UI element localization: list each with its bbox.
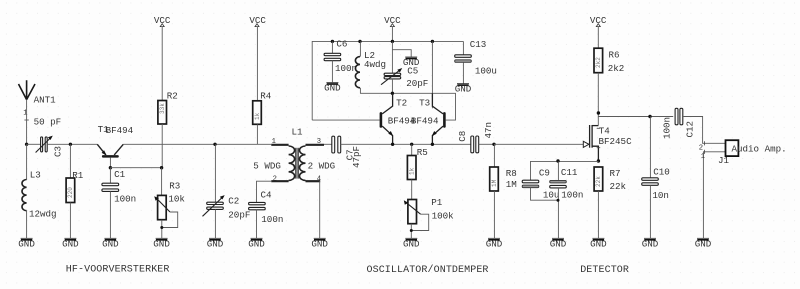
capacitor C7 47pF xyxy=(332,136,362,168)
wire VCC to rail xyxy=(391,27,393,42)
svg-text:10u: 10u xyxy=(543,190,560,201)
wire C12 to J1 pin2 xyxy=(683,117,725,144)
power VCC (R6) xyxy=(590,15,607,26)
svg-text:C11: C11 xyxy=(561,167,578,178)
wire node to T4 gate xyxy=(494,143,583,145)
svg-text:50 pF: 50 pF xyxy=(34,116,62,127)
capacitor C2 (trimmer 20pF) xyxy=(203,144,251,238)
svg-text:GND: GND xyxy=(248,238,265,249)
svg-text:C10: C10 xyxy=(653,167,670,178)
svg-text:C3: C3 xyxy=(53,146,64,157)
svg-text:GND: GND xyxy=(642,238,659,249)
wire C3 to T1 emitter xyxy=(47,143,97,145)
transistor T4 BF245C (JFET) xyxy=(583,125,632,161)
capacitor C1 xyxy=(102,168,136,239)
node T4 source xyxy=(597,159,600,162)
transistor T2 BF494 xyxy=(380,93,416,144)
ground (R3) xyxy=(153,238,170,249)
wire T2 base xyxy=(312,119,379,121)
ground (C2) xyxy=(207,238,224,249)
svg-text:C1: C1 xyxy=(114,169,126,180)
node R1 junction xyxy=(69,143,72,146)
svg-text:100n: 100n xyxy=(114,193,136,204)
svg-text:12wdg: 12wdg xyxy=(29,208,57,219)
wire VCC to R2 xyxy=(161,27,163,101)
svg-text:100n: 100n xyxy=(661,117,672,139)
svg-text:HF-VOORVERSTERKER: HF-VOORVERSTERKER xyxy=(66,264,170,275)
svg-text:100n: 100n xyxy=(335,63,357,74)
ground (C13) xyxy=(455,84,472,95)
svg-text:R5: R5 xyxy=(417,147,428,158)
inductor L3 xyxy=(22,144,57,238)
node R8/main wire xyxy=(492,143,495,146)
node T1 base junction xyxy=(109,166,112,169)
capacitor C11 100n xyxy=(550,161,584,238)
node R5/main wire xyxy=(410,143,413,146)
wire L1 pin4 to ground xyxy=(319,181,321,238)
svg-text:22k: 22k xyxy=(610,181,627,192)
capacitor C6 xyxy=(324,39,357,83)
pin 1 xyxy=(271,144,288,146)
ground (R8) xyxy=(486,238,503,249)
svg-text:C13: C13 xyxy=(470,39,487,50)
potentiometer R3 10k xyxy=(154,168,185,239)
wire R4 to main wire xyxy=(256,124,258,144)
svg-text:J1: J1 xyxy=(718,155,730,166)
svg-text:R1: R1 xyxy=(72,170,84,181)
svg-text:2: 2 xyxy=(699,144,703,152)
svg-text:10n: 10n xyxy=(652,190,669,201)
inductor L2 4wdg xyxy=(355,41,386,93)
svg-text:10k: 10k xyxy=(168,193,185,204)
svg-text:GND: GND xyxy=(550,238,567,249)
capacitor C10 10n xyxy=(642,117,670,239)
wire L1 pin3 to C7 xyxy=(324,143,332,145)
antenna ANT1 xyxy=(19,80,57,105)
oscillator bottom rail (tank node) xyxy=(360,93,456,120)
svg-text:GND: GND xyxy=(311,238,328,249)
svg-text:R4: R4 xyxy=(260,90,272,101)
ground (J1) xyxy=(695,238,712,249)
secondary winding 2 WDG xyxy=(300,146,306,180)
svg-text:100n: 100n xyxy=(561,190,583,201)
capacitor C12 100n xyxy=(661,108,695,139)
svg-text:1k: 1k xyxy=(254,112,261,120)
node C5/T2 collector on tank rail xyxy=(391,92,394,95)
svg-text:C12: C12 xyxy=(685,121,696,138)
svg-text:GND: GND xyxy=(102,238,119,249)
svg-text:C6: C6 xyxy=(336,39,347,50)
core xyxy=(295,148,297,179)
svg-text:BF494: BF494 xyxy=(106,125,134,136)
node T3 emitter/main wire xyxy=(431,143,434,146)
node C6/rail xyxy=(331,40,334,43)
svg-text:GND: GND xyxy=(153,238,170,249)
svg-text:22k: 22k xyxy=(595,176,602,187)
transistor T1 BF494 xyxy=(97,124,133,168)
svg-text:100u: 100u xyxy=(475,65,497,76)
svg-text:1k: 1k xyxy=(409,167,416,175)
wire T1 collector to transformer xyxy=(123,143,271,145)
capacitor C5 (trimmer 20pF) xyxy=(381,66,428,94)
svg-text:R7: R7 xyxy=(610,168,621,179)
resistor R6 xyxy=(594,48,624,74)
power VCC (oscillator) xyxy=(384,15,401,26)
wire C5 trimmer tap to ground xyxy=(392,50,411,57)
transistor T3 BF494 xyxy=(411,93,446,144)
oscillator top rail xyxy=(312,41,463,120)
capacitor C8 47n xyxy=(457,122,494,153)
potentiometer P1 100k xyxy=(404,197,454,238)
svg-text:1: 1 xyxy=(272,138,276,146)
power VCC (R4) xyxy=(249,15,266,26)
svg-text:C4: C4 xyxy=(261,189,273,200)
wire VCC to R6 xyxy=(597,27,599,49)
svg-text:R6: R6 xyxy=(609,49,620,60)
svg-text:GND: GND xyxy=(324,83,341,94)
svg-text:GND: GND xyxy=(590,238,607,249)
svg-text:OSCILLATOR/ONTDEMPER: OSCILLATOR/ONTDEMPER xyxy=(367,264,489,276)
pin 2 xyxy=(271,180,288,182)
wire L1 pin2 to C4 xyxy=(257,181,272,202)
svg-text:R3: R3 xyxy=(169,180,180,191)
pin 1 of ANT1 xyxy=(23,110,29,120)
node antenna/L3 junction xyxy=(25,143,28,146)
resistor R1 xyxy=(66,144,84,238)
ground (C11) xyxy=(550,238,567,249)
capacitor C4 xyxy=(249,189,284,238)
svg-text:BF245C: BF245C xyxy=(599,136,633,147)
svg-text:5 WDG: 5 WDG xyxy=(253,161,281,172)
wire R2 to base node (crosses main wire) xyxy=(161,124,163,168)
connector J1 Audio Amp xyxy=(718,140,787,166)
wire R6 to T4 drain xyxy=(597,73,599,126)
resistor R2 xyxy=(158,90,178,124)
node R2/R3/T1 base xyxy=(160,166,163,169)
svg-text:GND: GND xyxy=(403,238,420,249)
wire source bypass xyxy=(531,161,599,180)
svg-text:GND: GND xyxy=(18,238,35,249)
pin 4 xyxy=(306,180,321,182)
wire J1 pin1 to ground xyxy=(703,152,725,238)
node C2 junction xyxy=(213,143,216,146)
svg-text:1M: 1M xyxy=(506,179,517,190)
svg-text:20pF: 20pF xyxy=(406,78,428,89)
ground (C10) xyxy=(642,238,659,249)
svg-text:4wdg: 4wdg xyxy=(364,59,386,70)
svg-text:220: 220 xyxy=(67,187,74,198)
svg-text:L1: L1 xyxy=(292,127,304,138)
resistor R5 xyxy=(407,144,427,199)
svg-text:1: 1 xyxy=(701,153,705,161)
wire node to C3 xyxy=(27,143,41,145)
svg-text:33k: 33k xyxy=(159,103,166,114)
ground (L1 pin4) xyxy=(311,238,328,249)
svg-text:GND: GND xyxy=(695,238,712,249)
svg-text:C8: C8 xyxy=(457,131,468,142)
svg-text:20pF: 20pF xyxy=(228,210,250,221)
node VCC/C5/rail xyxy=(391,40,394,43)
ground (P1) xyxy=(403,238,420,249)
ground (R1) xyxy=(62,238,79,249)
ground (C6) xyxy=(324,83,341,94)
svg-text:C5: C5 xyxy=(407,66,418,77)
wire antenna to node xyxy=(26,100,28,145)
svg-text:1M: 1M xyxy=(491,179,498,187)
svg-text:3: 3 xyxy=(317,138,321,146)
transformer L1 xyxy=(253,127,335,184)
wire C8 to R8 node xyxy=(479,143,494,145)
resistor R4 xyxy=(253,90,272,124)
svg-text:T3: T3 xyxy=(419,98,430,109)
node C9/C11 ground wire xyxy=(557,199,560,202)
node T2 emitter/main wire xyxy=(391,143,394,146)
capacitor C3 (trimmer 50 pF) xyxy=(34,116,64,157)
node C11 junction xyxy=(556,159,559,162)
node T3 collector/rail xyxy=(431,40,434,43)
node drain/output branch xyxy=(597,111,600,114)
wire VCC to R4 xyxy=(256,27,258,101)
svg-text:BF494: BF494 xyxy=(411,116,439,127)
wire output branch to C12 xyxy=(598,116,673,118)
pin 2 of J1 xyxy=(699,141,705,152)
svg-text:2 WDG: 2 WDG xyxy=(308,161,336,172)
svg-text:GND: GND xyxy=(207,238,224,249)
node L2/rail xyxy=(358,40,361,43)
ground (C5 tap) xyxy=(403,57,420,68)
svg-text:4: 4 xyxy=(317,176,321,184)
resistor R7 xyxy=(594,167,626,238)
svg-text:100k: 100k xyxy=(432,211,455,222)
capacitor C9 10u xyxy=(522,168,559,201)
svg-text:GND: GND xyxy=(62,238,79,249)
svg-text:47n: 47n xyxy=(483,122,494,139)
ground (L3) xyxy=(18,238,35,249)
svg-text:2: 2 xyxy=(273,176,277,184)
wire T3 collector to VCC rail xyxy=(431,41,433,108)
node C10 junction xyxy=(648,115,651,118)
primary winding 5 WDG xyxy=(289,146,295,180)
resistor R8 xyxy=(490,144,517,238)
svg-text:R2: R2 xyxy=(167,90,178,101)
svg-text:C9: C9 xyxy=(539,168,550,179)
svg-text:47pF: 47pF xyxy=(351,146,362,168)
svg-text:L3: L3 xyxy=(30,170,41,181)
ground (C4) xyxy=(248,238,265,249)
svg-text:100n: 100n xyxy=(261,214,283,225)
svg-text:GND: GND xyxy=(486,238,503,249)
svg-text:Audio Amp.: Audio Amp. xyxy=(732,143,787,154)
ground (C1) xyxy=(102,238,119,249)
svg-text:2k2: 2k2 xyxy=(595,57,602,68)
pin 1 of J1 xyxy=(701,150,705,161)
wire T1 base to R3 xyxy=(110,167,161,169)
svg-text:P1: P1 xyxy=(431,197,443,208)
svg-text:T2: T2 xyxy=(396,98,407,109)
svg-text:ANT1: ANT1 xyxy=(34,95,57,106)
wire rail to C5 xyxy=(391,41,393,73)
pin 3 xyxy=(306,144,325,146)
ground (R7) xyxy=(590,238,607,249)
svg-text:DETECTOR: DETECTOR xyxy=(580,265,629,276)
svg-text:C2: C2 xyxy=(228,196,239,207)
svg-text:R8: R8 xyxy=(506,168,517,179)
svg-text:GND: GND xyxy=(455,84,472,95)
svg-text:2k2: 2k2 xyxy=(608,63,625,74)
wire C7 to T2 emitter node xyxy=(341,143,471,145)
capacitor C13 xyxy=(455,39,497,84)
power VCC (R2) xyxy=(154,15,171,26)
